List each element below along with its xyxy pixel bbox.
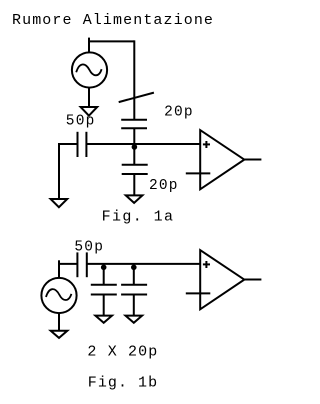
wire: capacitor 20p to ground [133,174,135,196]
wire: node down to capacitor 20p [133,144,135,165]
capacitor 20p A (Fig 1b): bottom plate [91,294,117,296]
wire: V2 bottom to ground [58,314,60,332]
wire: capacitor A to ground [103,295,105,317]
capacitor 20p (shunt, Fig 1a): bottom plate [122,173,148,175]
wire: left down to ground [58,143,60,199]
ground (under 20p, Fig 1a) [126,195,143,203]
AC source V1 (Fig 1a) [72,52,107,87]
wire: dot1 down to capacitor [103,264,105,285]
svg-text:Fig. 1b: Fig. 1b [88,375,158,392]
capacitor 20p B (Fig 1b): top plate [121,284,147,286]
wire: op-amp U1 inverting input stub [186,172,211,174]
svg-text:20p: 20p [149,178,179,194]
capacitor 50p (Fig 1a): right plate [85,132,87,157]
op-amp U1 (Fig 1a) [200,130,244,189]
capacitor 20p (shunt, Fig 1a): top plate [122,164,148,166]
wire: variable capacitor to node [133,128,135,145]
variable capacitor 20p: diagonal arrow [119,93,154,103]
wire: V1 bottom to ground [88,88,90,108]
svg-text:Rumore Alimentazione: Rumore Alimentazione [12,12,214,29]
wire: mid horizontal right segment to op-amp [86,143,200,145]
wire: V1 top stub [88,38,90,53]
wire: capacitor B to ground [133,295,135,317]
capacitor 50p (Fig 1b): right plate [86,252,88,277]
variable capacitor 20p: bottom plate [121,127,147,129]
wire: V2 top stub [58,260,60,278]
wire: dot2 down to capacitor [133,264,135,285]
svg-text:20p: 20p [164,104,194,120]
wire: top horizontal [88,40,134,42]
capacitor 20p A (Fig 1b): top plate [91,284,117,286]
variable capacitor 20p: top plate [121,119,147,121]
svg-text:50p: 50p [74,240,104,256]
op-amp U2 (Fig 1b) [200,250,244,309]
svg-text:2 X 20p: 2 X 20p [87,343,158,360]
svg-text:Fig. 1a: Fig. 1a [102,208,175,225]
ground (left, Fig 1a) [51,199,68,207]
AC source V2 (Fig 1b) [41,278,76,313]
wire: op-amp U2 inverting input stub [186,292,211,294]
node junction dot 2 (Fig 1b) [131,265,137,271]
wire: op-amp U1 output stub [244,159,261,161]
node junction dot 1 (Fig 1b) [101,265,107,271]
ground (under V1, Fig 1a) [81,107,98,116]
capacitor 20p B (Fig 1b): bottom plate [121,294,147,296]
wire: horizontal V2 to capacitor 50p [58,263,77,265]
capacitor 50p (Fig 1a): left plate [77,132,79,157]
ground (under V2, Fig 1b) [51,331,68,338]
wire: capacitor 50p to op-amp [87,263,200,265]
svg-text:50p: 50p [66,114,96,130]
wire: vertical down to variable capacitor [133,40,135,119]
ground (under capacitor B, Fig 1b) [126,316,143,323]
wire: op-amp U2 output stub [244,279,261,281]
wire: mid horizontal left segment [59,143,78,145]
node junction dot (Fig 1a) [132,144,138,150]
ground (under capacitor A, Fig 1b) [95,316,112,323]
capacitor 50p (Fig 1b): left plate [76,252,78,277]
